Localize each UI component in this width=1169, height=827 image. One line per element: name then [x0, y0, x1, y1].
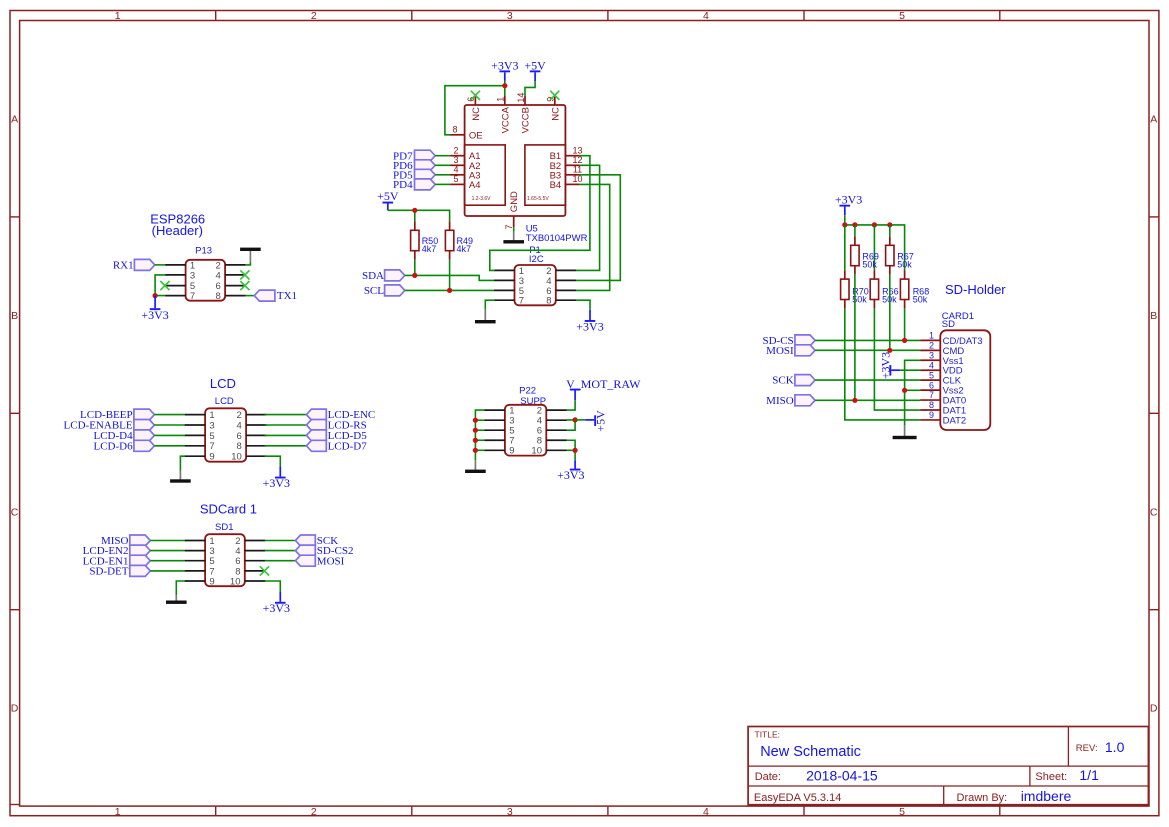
svg-text:LCD: LCD	[215, 396, 234, 407]
svg-text:+5V: +5V	[594, 410, 608, 432]
svg-text:2018-04-15: 2018-04-15	[806, 767, 878, 783]
no-connect X on P13 pin 4	[240, 270, 249, 279]
header SD1 pin 10	[230, 576, 265, 587]
svg-text:5: 5	[899, 806, 905, 818]
header P1 I2C pin 6	[546, 286, 576, 297]
svg-text:P13: P13	[195, 245, 212, 256]
junction bus / R70	[842, 222, 847, 227]
svg-text:3: 3	[209, 420, 214, 431]
svg-text:B: B	[11, 310, 18, 322]
svg-text:P22: P22	[519, 386, 536, 397]
CARD1 pin 7 DAT0	[920, 390, 966, 406]
U5 pin 1 VCCA	[496, 96, 512, 133]
svg-text:4: 4	[216, 270, 221, 281]
net flag LCD-RS	[306, 420, 366, 432]
svg-text:9: 9	[509, 446, 514, 457]
header P22 SUPP pin 9	[484, 446, 514, 457]
net flag LCD-D7	[306, 440, 367, 452]
wire LCD to LCD-D5	[265, 434, 307, 436]
net flag RX1	[113, 259, 155, 271]
junction bus / R67	[887, 222, 892, 227]
wire R50 top	[414, 210, 416, 221]
svg-text:2: 2	[237, 410, 242, 421]
wire P22 pin to rail	[475, 419, 484, 421]
wire bus to R70	[844, 225, 846, 270]
net flag SCL	[364, 285, 405, 297]
net flag LCD-D4	[93, 430, 154, 442]
svg-text:10: 10	[572, 174, 582, 184]
header P22 SUPP pin 6	[537, 426, 567, 437]
CARD1 pin 4 VDD	[920, 360, 963, 376]
header P22 SUPP pin 4	[537, 416, 567, 427]
CARD1 pin 2 CMD	[920, 341, 964, 357]
no-connect X on SD1 pin 8	[260, 566, 269, 575]
net flag PD7	[393, 150, 435, 162]
header LCD pin 8	[237, 441, 267, 452]
svg-text:50k: 50k	[862, 260, 877, 270]
wire LCD-EN1 to SD1	[150, 560, 185, 562]
svg-text:13: 13	[572, 146, 582, 156]
svg-text:MOSI: MOSI	[766, 345, 794, 357]
svg-text:4: 4	[929, 360, 934, 370]
frame column ticks bottom	[216, 806, 1000, 816]
svg-text:1/1: 1/1	[1079, 767, 1099, 783]
power flag V_MOT_RAW	[566, 377, 641, 400]
net flag MISO	[766, 395, 815, 407]
net flag PD4	[393, 179, 435, 191]
ground at LCD pin 9	[170, 471, 191, 483]
svg-text:7: 7	[929, 390, 934, 400]
U5 pin 5 A4	[451, 174, 481, 191]
header SD1 pin 5	[185, 556, 215, 567]
header P1 I2C pin 3	[494, 276, 524, 287]
wire SD1 pin 9 to ground	[176, 581, 185, 595]
svg-text:7: 7	[190, 291, 195, 302]
svg-text:VCCB: VCCB	[521, 107, 532, 133]
header P1 I2C pin 1	[494, 266, 524, 277]
header SD1 pin 8	[235, 566, 265, 577]
junction P22 pin 7	[473, 438, 478, 443]
header P1 I2C pin 8	[546, 296, 576, 307]
svg-text:D: D	[1150, 703, 1158, 715]
wire I2C pin 7 to ground	[485, 300, 495, 310]
svg-text:1: 1	[115, 806, 121, 818]
wire LCD-D6 to LCD	[154, 445, 184, 447]
svg-text:Date:: Date:	[755, 771, 781, 783]
svg-text:8: 8	[452, 124, 457, 134]
junction SCL / R49	[447, 288, 452, 293]
power flag +5V right of P22	[585, 410, 608, 432]
header SD1 pin 6	[235, 556, 265, 567]
wire +5V rail to resistors	[388, 210, 450, 221]
svg-text:SD: SD	[942, 319, 955, 330]
svg-text:LCD-D6: LCD-D6	[93, 440, 133, 452]
svg-text:2: 2	[929, 341, 934, 351]
svg-text:3: 3	[507, 806, 513, 818]
svg-text:TXB0104PWR: TXB0104PWR	[526, 233, 588, 244]
resistor R49 4k7	[445, 221, 473, 259]
svg-text:50k: 50k	[913, 294, 928, 304]
power flag +3V3	[835, 192, 862, 215]
IC U5 TXB0104PWR body	[465, 105, 566, 216]
svg-text:2: 2	[311, 806, 317, 818]
junction bus / R66	[872, 222, 877, 227]
svg-text:+3V3: +3V3	[263, 476, 290, 490]
wire SD1 to MOSI	[265, 560, 296, 562]
wire LCD-BEEP to LCD	[154, 414, 184, 416]
svg-text:1: 1	[496, 97, 506, 102]
wire +5V to U5 VCCB	[525, 81, 535, 96]
frame column labels bottom	[115, 806, 905, 818]
U5 pin 12 B2	[550, 155, 583, 172]
svg-text:10: 10	[230, 576, 241, 587]
wire bus to R66	[873, 225, 875, 270]
wire LCD to LCD-D7	[265, 445, 307, 447]
U5 pin 10 B4	[550, 174, 583, 191]
frame row labels left	[11, 114, 19, 715]
frame column labels top	[115, 10, 905, 22]
net flag PD5	[393, 169, 435, 181]
svg-text:DAT2: DAT2	[943, 415, 967, 426]
resistor R70 50k	[841, 270, 869, 308]
svg-text:9: 9	[209, 576, 214, 587]
svg-text:SDA: SDA	[362, 270, 384, 282]
net flag MISO	[101, 535, 150, 547]
svg-text:10: 10	[531, 446, 542, 457]
U5 pin 13 B1	[550, 146, 583, 163]
svg-text:VCCA: VCCA	[500, 106, 511, 133]
wire I2C pin 4 to U5 B3	[576, 175, 620, 281]
header P22 SUPP body	[505, 405, 546, 456]
wire R69 to DAT0 row	[854, 275, 856, 401]
header P22 SUPP pin 10	[531, 446, 566, 457]
wire PD5 to U5 A3	[435, 174, 450, 176]
power flag +3V3 at SD1 pin 10	[263, 592, 290, 616]
U5 pin 4 A3	[451, 165, 481, 182]
power flag +3V3 at CARD1 VDD	[878, 352, 900, 379]
U5 pin 11 B3	[550, 165, 583, 182]
svg-text:50k: 50k	[897, 260, 912, 270]
ground at P13 pin 2	[240, 248, 261, 263]
frame row labels right	[1150, 114, 1158, 715]
wire SD1 to SD-CS2	[265, 550, 296, 552]
resistor R66 50k	[870, 270, 898, 308]
header P13 pin 4	[216, 270, 246, 281]
wire PD7 to U5 A1	[435, 155, 450, 157]
wire MOSI to CARD1 pin 2	[815, 349, 920, 351]
svg-text:2: 2	[453, 146, 458, 156]
svg-text:New Schematic: New Schematic	[760, 744, 861, 760]
wire R68 to CD/DAT3 row	[904, 308, 906, 340]
power flag +5V	[524, 58, 546, 81]
wire P22 pin 4 to +5V	[575, 419, 585, 421]
svg-text:8: 8	[546, 296, 551, 307]
header P13 pin 8	[216, 291, 246, 302]
wire +3V3 to VDD pin 4	[900, 369, 920, 371]
svg-text:10: 10	[231, 452, 242, 463]
svg-text:1: 1	[929, 331, 934, 341]
svg-text:(Header): (Header)	[152, 223, 203, 238]
net flag LCD-D5	[306, 430, 367, 442]
wire Vss2	[905, 389, 921, 391]
wire I2C pin 1 to U5 B1	[490, 156, 590, 271]
wire P13 pin 8 to TX1	[246, 295, 255, 297]
frame row ticks left	[10, 217, 20, 805]
resistor R67 50k	[886, 236, 914, 274]
net flag SCK	[772, 375, 815, 387]
junction P22 pin 10 / +3V3	[573, 448, 578, 453]
net flag TX1	[254, 290, 297, 302]
header P22 SUPP pin 1	[484, 406, 514, 417]
svg-text:B4: B4	[550, 180, 562, 191]
junction DAT0 / R69	[852, 398, 857, 403]
svg-text:8: 8	[216, 291, 221, 302]
header P13 body	[186, 260, 226, 301]
svg-text:I2C: I2C	[529, 254, 544, 265]
svg-text:+3V3: +3V3	[263, 601, 290, 615]
svg-text:C: C	[1150, 506, 1158, 518]
wire P22 pin to rail	[475, 439, 484, 441]
wire LCD-EN2 to SD1	[150, 550, 185, 552]
junction P22 pin 5	[473, 428, 478, 433]
junction bus / R69	[852, 222, 857, 227]
svg-text:SDCard 1: SDCard 1	[200, 502, 257, 517]
svg-text:NC: NC	[550, 107, 561, 121]
wire LCD-D4 to LCD	[154, 434, 184, 436]
CARD1 pin 3 Vss1	[920, 350, 964, 366]
svg-text:+5V: +5V	[524, 58, 546, 72]
wire SD1 pin 10 to +3V3	[265, 581, 281, 592]
svg-text:+3V3: +3V3	[835, 192, 862, 206]
svg-text:1.65-5.5V: 1.65-5.5V	[527, 196, 549, 202]
svg-text:+3V3: +3V3	[491, 58, 518, 72]
wire MISO to SD1	[150, 540, 185, 542]
svg-text:SD1: SD1	[215, 522, 233, 533]
header P1 I2C pin 7	[494, 296, 524, 307]
wire U5 OE to VCCA net	[445, 86, 505, 135]
header LCD pin 4	[237, 420, 267, 431]
svg-text:SD-Holder: SD-Holder	[945, 282, 1006, 297]
header SD1 pin 9	[185, 576, 215, 587]
net flag SD-CS2	[295, 545, 353, 557]
svg-text:D: D	[11, 703, 19, 715]
net flag LCD-D6	[93, 440, 154, 452]
svg-text:B: B	[1150, 310, 1157, 322]
no-connect X on U5 pin 9	[550, 91, 559, 100]
svg-text:3: 3	[453, 155, 458, 165]
header P1 I2C pin 2	[546, 266, 576, 277]
svg-text:OE: OE	[469, 131, 483, 142]
header LCD pin 9	[185, 452, 215, 463]
no-connect X on P13 pin 5	[160, 281, 169, 290]
wire SDA to I2C pin 3	[405, 275, 494, 280]
svg-text:4k7: 4k7	[457, 244, 472, 254]
svg-text:4: 4	[703, 10, 709, 22]
svg-text:1: 1	[209, 410, 214, 421]
header LCD pin 3	[185, 420, 215, 431]
svg-text:LCD: LCD	[210, 376, 236, 391]
header P22 SUPP pin 5	[484, 426, 514, 437]
title block frame	[748, 727, 1148, 805]
svg-text:5: 5	[929, 370, 934, 380]
frame column ticks top	[216, 11, 1000, 21]
header LCD pin 10	[231, 452, 266, 463]
net flag SCK	[295, 535, 338, 547]
CARD1 pin 8 DAT1	[920, 400, 966, 416]
svg-text:PD4: PD4	[393, 179, 413, 191]
wire SD-DET to SD1	[150, 570, 185, 572]
svg-text:4: 4	[237, 420, 242, 431]
U5 pin 2 A1	[451, 146, 481, 163]
resistor R69 50k	[851, 236, 879, 274]
svg-text:4k7: 4k7	[422, 244, 437, 254]
header LCD body	[205, 408, 246, 461]
header SD1 pin 2	[235, 536, 265, 547]
frame row ticks right	[1149, 217, 1159, 610]
wire R70 to DAT2 row	[845, 308, 920, 420]
svg-text:+3V3: +3V3	[141, 308, 168, 322]
junction VCCA / OE / +3V3	[502, 83, 507, 88]
wire bus to R67	[889, 225, 891, 237]
ground at I2C pin 7	[475, 310, 496, 324]
wire Vss1 / Vss2 to ground	[905, 360, 921, 426]
wire PD6 to U5 A2	[435, 164, 450, 166]
net flag MOSI	[766, 345, 815, 357]
power flag +3V3 below P22	[557, 460, 584, 482]
ground at U5 pin 7	[503, 232, 524, 244]
header P13 pin 7	[165, 291, 195, 302]
wire P22 pin to rail	[475, 449, 484, 451]
svg-text:12: 12	[572, 155, 582, 165]
svg-text:MISO: MISO	[766, 395, 794, 407]
wire +3V3 to U5 VCCA	[504, 81, 506, 96]
wire LCD pin 9 to ground	[180, 456, 184, 470]
resistor R68 50k	[900, 270, 929, 308]
wire SCL to I2C pin 5	[405, 289, 494, 291]
header LCD pin 1	[185, 410, 215, 421]
svg-text:GND: GND	[509, 191, 520, 212]
header P22 SUPP pin 8	[537, 436, 567, 447]
header LCD pin 7	[185, 441, 215, 452]
header P1 I2C body	[515, 265, 556, 305]
U5 pin 6 NC	[466, 96, 482, 121]
svg-text:5: 5	[453, 174, 458, 184]
header P22 SUPP pin 3	[484, 416, 514, 427]
header SD1 pin 3	[185, 546, 215, 557]
svg-text:7: 7	[519, 296, 524, 307]
header LCD pin 6	[237, 431, 267, 442]
wire LCD to LCD-RS	[265, 424, 307, 426]
svg-text:5: 5	[209, 431, 214, 442]
header P22 SUPP pin 2	[537, 406, 567, 417]
header P22 SUPP pin 7	[484, 436, 514, 447]
wire PD4 to U5 A4	[435, 183, 450, 185]
svg-text:Sheet:: Sheet:	[1035, 771, 1067, 783]
svg-text:+3V3: +3V3	[576, 319, 603, 333]
svg-text:4: 4	[703, 806, 709, 818]
wire bus to R69	[854, 225, 856, 237]
svg-text:TX1: TX1	[277, 290, 297, 302]
junction +5V rail / R50	[412, 208, 417, 213]
svg-text:+5V: +5V	[377, 189, 399, 203]
wire MISO to CARD1 pin 7 DAT0	[815, 399, 920, 401]
wire R66 to DAT1 row	[874, 308, 920, 410]
wire SD-CS to CARD1 pin 1	[815, 339, 920, 341]
svg-text:6: 6	[929, 380, 934, 390]
svg-text:NC: NC	[471, 107, 482, 121]
wire RX1 to P13 pin 1	[155, 264, 165, 266]
header SD1 pin 1	[185, 536, 215, 547]
svg-text:LCD-D7: LCD-D7	[328, 440, 368, 452]
net flag LCD-BEEP	[80, 409, 154, 421]
svg-text:A4: A4	[469, 180, 481, 191]
junction CD/DAT3 / R68	[902, 338, 907, 343]
svg-text:9: 9	[209, 452, 214, 463]
svg-text:1.2-3.6V: 1.2-3.6V	[472, 196, 492, 202]
junction Vss2 / ground rail	[902, 388, 907, 393]
wire LCD pin 10 to +3V3	[265, 456, 281, 466]
wire R50 bottom to SDA	[414, 260, 416, 276]
junction P22 pin 9	[473, 448, 478, 453]
power flag +3V3	[576, 310, 603, 334]
svg-text:8: 8	[929, 400, 934, 410]
resistor R50 4k7	[411, 221, 439, 259]
header SD1 pin 7	[185, 566, 215, 577]
ground at CARD1	[893, 426, 917, 439]
svg-text:3: 3	[929, 350, 934, 360]
svg-text:+3V3: +3V3	[557, 468, 584, 482]
svg-text:2: 2	[311, 10, 317, 22]
net flag LCD-EN2	[83, 545, 151, 557]
wire LCD-ENABLE to LCD	[154, 424, 184, 426]
svg-text:7: 7	[504, 224, 514, 229]
svg-text:1: 1	[115, 10, 121, 22]
header P1 I2C pin 4	[546, 276, 576, 287]
svg-text:TITLE:: TITLE:	[755, 730, 781, 740]
IC CARD1 SD body	[940, 330, 990, 430]
power flag +3V3 at LCD pin 10	[263, 466, 290, 490]
net flag SD-DET	[89, 565, 150, 577]
wire P22 pin 10	[567, 449, 576, 451]
wire +3V3 pull-up bus	[845, 215, 905, 270]
wire R49 bottom to SCL	[449, 260, 451, 291]
header P13 pin 6	[216, 281, 246, 292]
U5 pin 8 OE	[451, 124, 483, 141]
power flag +3V3	[491, 58, 518, 81]
wire I2C pin 6 to U5 B4	[576, 184, 610, 290]
svg-text:RX1: RX1	[113, 260, 134, 272]
header P13 pin 3	[165, 270, 195, 281]
net flag MOSI	[295, 555, 344, 567]
svg-text:8: 8	[237, 441, 242, 452]
CARD1 pin 9 DAT2	[920, 410, 966, 426]
wire P13 pin 2 to ground	[246, 262, 251, 265]
ground at SD1 pin 9	[166, 595, 187, 604]
svg-text:7: 7	[209, 441, 214, 452]
U5 pin 7 GND	[504, 191, 520, 230]
U5 pin 9 NC	[546, 96, 562, 121]
CARD1 pin 1 CD/DAT3	[920, 331, 982, 347]
svg-text:6: 6	[237, 431, 242, 442]
svg-text:MOSI: MOSI	[317, 555, 345, 567]
wire R67 to CMD row	[889, 275, 891, 351]
svg-text:5: 5	[899, 10, 905, 22]
svg-text:A: A	[11, 114, 18, 126]
net flag LCD-ENABLE	[64, 420, 155, 432]
ground at P22	[465, 460, 486, 473]
svg-text:REV:: REV:	[1076, 743, 1098, 754]
no-connect X on U5 pin 6	[471, 91, 480, 100]
